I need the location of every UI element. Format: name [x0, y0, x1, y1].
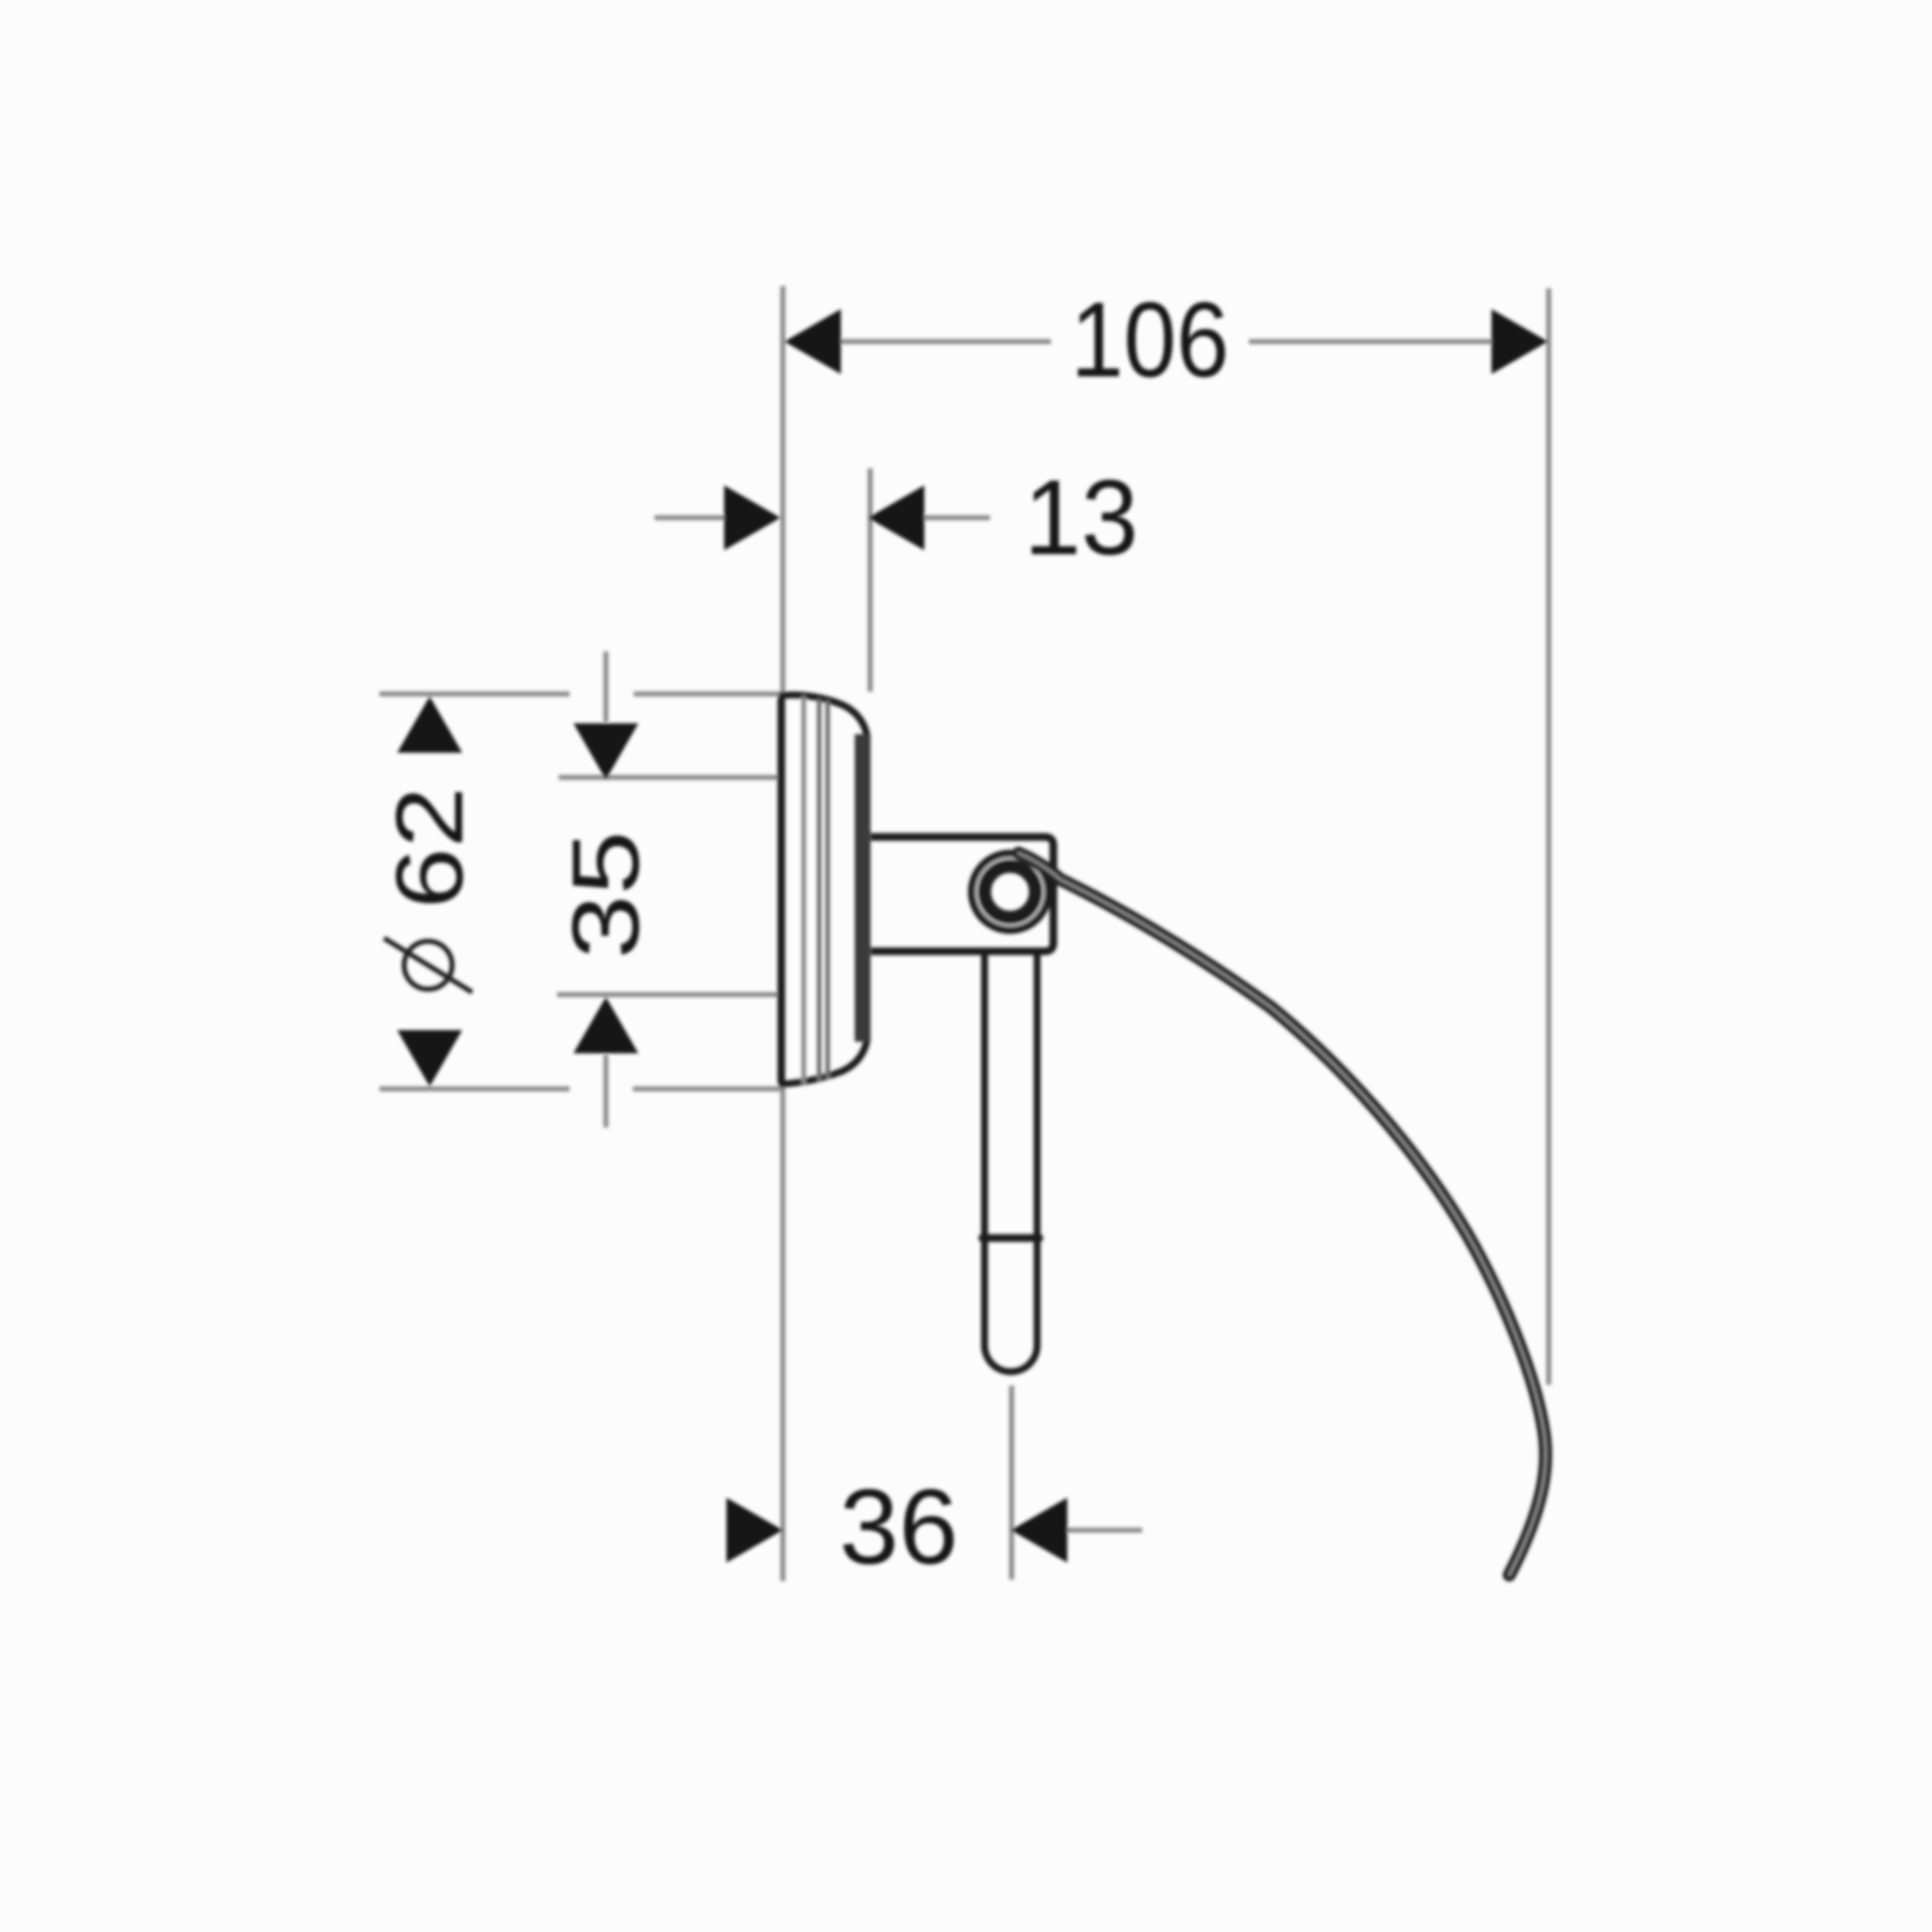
svg-text:36: 36 — [839, 1468, 958, 1587]
svg-text:62: 62 — [377, 787, 483, 909]
svg-text:106: 106 — [1071, 281, 1230, 400]
svg-text:35: 35 — [553, 831, 659, 959]
svg-text:13: 13 — [1024, 458, 1138, 577]
